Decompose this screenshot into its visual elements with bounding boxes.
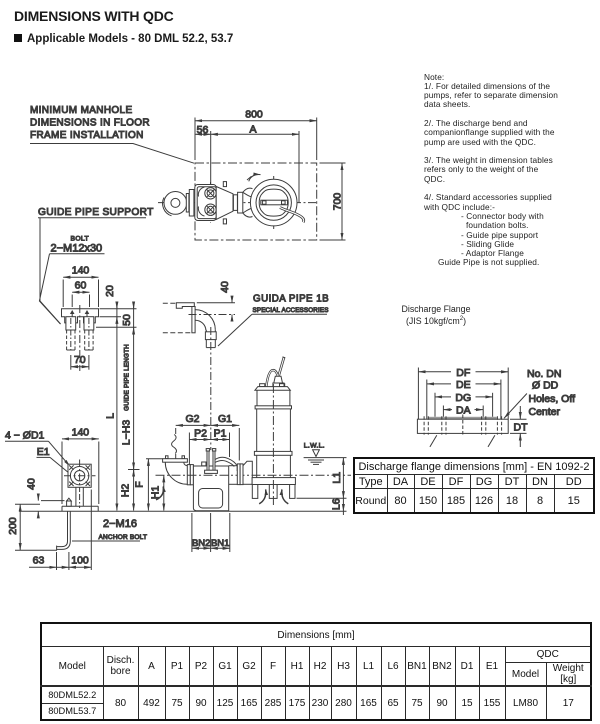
svg-text:200: 200 <box>7 517 19 535</box>
pump neck (top view) <box>243 188 253 217</box>
svg-text:G2: G2 <box>185 413 199 425</box>
dim 56 / A <box>195 123 299 202</box>
bottom tab <box>223 219 226 224</box>
support stem <box>76 487 83 508</box>
svg-text:700: 700 <box>331 193 343 211</box>
svg-text:DT: DT <box>514 422 529 434</box>
svg-text:GUIDE PIPE LENGTH: GUIDE PIPE LENGTH <box>123 344 130 411</box>
label: GUIDA PIPE 1B <box>252 294 329 315</box>
label: BOLT 2-M12x30 <box>50 236 105 255</box>
svg-text:FRAME INSTALLATION: FRAME INSTALLATION <box>30 130 144 141</box>
dim 60 (support) <box>72 280 89 308</box>
pump legs <box>252 485 295 499</box>
svg-text:40: 40 <box>25 478 37 490</box>
manhole frame (top view, dash-dot) <box>195 163 317 240</box>
svg-text:BN2: BN2 <box>192 538 210 549</box>
label: GUIDE PIPE SUPPORT <box>38 207 154 218</box>
svg-text:H2: H2 <box>119 484 131 498</box>
centerline holder horizontal <box>189 314 236 316</box>
svg-text:GUIDA PIPE 1B: GUIDA PIPE 1B <box>253 294 329 305</box>
support flange plates (top view) <box>186 190 194 217</box>
label: No. DN holes <box>527 368 575 418</box>
notes block <box>424 73 569 268</box>
svg-text:H1: H1 <box>149 486 161 500</box>
discharge pipe to pump <box>229 461 253 484</box>
label: minimum manhole note <box>30 105 150 141</box>
guide pipe elbow (side view) <box>195 310 215 331</box>
discharge flange dimension table <box>353 457 595 514</box>
svg-text:SPECIAL ACCESSORIES: SPECIAL ACCESSORIES <box>253 307 329 314</box>
dim 140 (anchor flange) <box>62 427 99 505</box>
dim DE <box>427 379 501 391</box>
anchor bolt below plate <box>57 511 71 550</box>
dim 40 (anchor) <box>25 478 64 516</box>
svg-text:F: F <box>133 481 145 487</box>
leader: guida pipe <box>218 314 252 346</box>
guide pipe holder bracket (side view) <box>176 303 194 308</box>
wall dashed lines (side view) <box>163 303 192 333</box>
svg-text:63: 63 <box>33 555 45 567</box>
pump cable gland <box>273 376 284 387</box>
svg-text:DG: DG <box>455 392 471 404</box>
leader: holes <box>504 394 527 419</box>
guide pipe support eye (top view) <box>163 192 187 216</box>
leader: manhole note <box>30 144 194 164</box>
applicable models line <box>14 33 233 45</box>
main dimensions table <box>40 622 592 721</box>
cable (top view) <box>280 208 304 223</box>
base plate <box>62 506 98 511</box>
pump motor body <box>255 390 291 409</box>
leader: guide pipe support <box>40 218 61 324</box>
svg-text:GUIDE PIPE SUPPORT: GUIDE PIPE SUPPORT <box>38 207 154 218</box>
dim 63 / 100 <box>29 490 91 571</box>
pump cable (left slack strand) <box>266 370 277 386</box>
svg-text:140: 140 <box>72 427 90 439</box>
dim DT <box>510 406 528 447</box>
dim BN2 / BN1 <box>192 513 230 552</box>
dim DA <box>443 405 483 417</box>
dim P2 / P1 <box>189 428 229 465</box>
dim H1 line <box>149 475 164 510</box>
svg-text:L1: L1 <box>331 472 343 484</box>
svg-text:56: 56 <box>197 124 209 136</box>
leader: bolt label <box>39 254 60 324</box>
connector body (top view) <box>195 185 216 221</box>
svg-text:Holes, Off: Holes, Off <box>529 393 576 405</box>
svg-text:60: 60 <box>75 280 87 292</box>
guide pipes (dashed, front view) <box>66 317 94 352</box>
svg-text:ANCHOR BOLT: ANCHOR BOLT <box>99 534 148 541</box>
ext lines support right <box>96 309 137 328</box>
svg-text:2−M16: 2−M16 <box>103 518 137 530</box>
support bracket plate (front view) <box>62 309 99 323</box>
bolt leader diagonals <box>430 435 495 447</box>
discharge flange label <box>394 304 478 327</box>
dim 40 (holder) <box>197 281 235 321</box>
dim 700 <box>320 163 346 240</box>
label: 4 - D1 <box>5 430 49 442</box>
pipe centerline (side view) <box>156 474 352 476</box>
dim G2 / G1 <box>172 413 240 461</box>
leader: D1 <box>49 441 71 466</box>
dim 200 <box>7 504 57 550</box>
svg-text:No. DN: No. DN <box>527 368 561 380</box>
flange centerlines <box>64 460 96 493</box>
svg-text:100: 100 <box>71 555 89 567</box>
svg-text:P1: P1 <box>214 428 227 440</box>
connector elbow (side view) <box>165 462 187 484</box>
svg-text:50: 50 <box>121 314 133 326</box>
pump casing circle (top view) <box>250 179 297 226</box>
guide claw (side view) <box>202 449 238 474</box>
centerline support <box>79 305 81 371</box>
svg-text:L: L <box>104 413 116 419</box>
centerline horizontal (top view) <box>158 202 317 204</box>
dim DF <box>418 367 508 379</box>
flange pair (top view) <box>233 192 242 213</box>
dim 140 (support) <box>63 265 98 308</box>
svg-text:Center: Center <box>529 406 561 418</box>
svg-text:MINIMUM MANHOLE: MINIMUM MANHOLE <box>30 105 132 116</box>
connector flange pair <box>187 465 193 485</box>
guide pipe (side view) <box>205 330 216 348</box>
top tab <box>223 182 226 187</box>
svg-text:DIMENSIONS IN FLOOR: DIMENSIONS IN FLOOR <box>30 118 150 129</box>
leader: E1 <box>50 457 75 478</box>
centerline vertical pump <box>273 176 275 230</box>
anchor bolt above plate <box>67 498 72 506</box>
label: 2-M16 ANCHOR BOLT <box>72 518 147 541</box>
pump centerline <box>272 384 274 506</box>
svg-text:L6: L6 <box>330 498 342 510</box>
svg-text:70: 70 <box>74 354 86 366</box>
centerline guide pipe vertical <box>210 327 212 450</box>
svg-text:L.W.L.: L.W.L. <box>304 442 325 449</box>
svg-text:P2: P2 <box>194 428 207 440</box>
pump flange pair <box>237 464 243 485</box>
lifting handle (top view) <box>261 200 288 205</box>
pump inner circle <box>256 185 291 220</box>
flow arrows <box>156 487 288 504</box>
bolt lower (top view) <box>198 204 216 216</box>
centerline vertical guide pipe <box>210 182 212 223</box>
label: E1 <box>37 446 51 458</box>
dim F line <box>133 459 162 511</box>
dim DG <box>435 392 493 404</box>
holder vertical plate <box>192 307 195 333</box>
discharge top flange (side view) <box>163 456 188 462</box>
svg-text:DF: DF <box>456 367 470 379</box>
svg-text:4 − ØD1: 4 − ØD1 <box>5 430 45 442</box>
connector body (side view) <box>193 466 228 511</box>
flange section <box>417 417 508 434</box>
rotation arrow (top view) <box>247 175 261 182</box>
pump lower body <box>252 455 295 484</box>
pump cable (right strand) <box>279 357 286 376</box>
adaptor trapezoid (top view) <box>216 187 233 220</box>
svg-text:40: 40 <box>219 281 231 293</box>
dim 800 <box>195 109 317 161</box>
dim 20 and L line <box>104 285 117 510</box>
water level symbol <box>304 450 347 465</box>
svg-text:L−H3: L−H3 <box>120 420 132 446</box>
svg-text:BN1: BN1 <box>211 538 229 549</box>
svg-text:G1: G1 <box>218 413 232 425</box>
svg-text:140: 140 <box>72 265 90 277</box>
bolt hole dashed lines <box>424 415 502 437</box>
svg-text:A: A <box>249 123 256 135</box>
pump volute blob <box>259 189 288 216</box>
flange detail ext lines <box>418 368 508 420</box>
svg-text:Ø DD: Ø DD <box>532 380 559 392</box>
svg-text:BOLT: BOLT <box>71 236 89 243</box>
dim 70 (support) <box>71 354 89 370</box>
bolt upper (top view) <box>198 187 216 199</box>
svg-text:2−M12x30: 2−M12x30 <box>51 243 103 255</box>
svg-text:800: 800 <box>245 109 263 121</box>
svg-text:DE: DE <box>456 379 471 391</box>
square flange (front view) <box>68 464 91 487</box>
floor line <box>19 510 318 512</box>
dim 50 / L-H3 / H2 line <box>119 302 139 511</box>
pump top cap <box>255 384 290 391</box>
support bolts (M12) <box>70 310 89 317</box>
page title <box>14 8 174 24</box>
svg-text:E1: E1 <box>37 446 50 458</box>
pump mid body <box>254 409 292 455</box>
dim L1 / L6 <box>297 458 347 515</box>
svg-text:20: 20 <box>104 285 116 297</box>
